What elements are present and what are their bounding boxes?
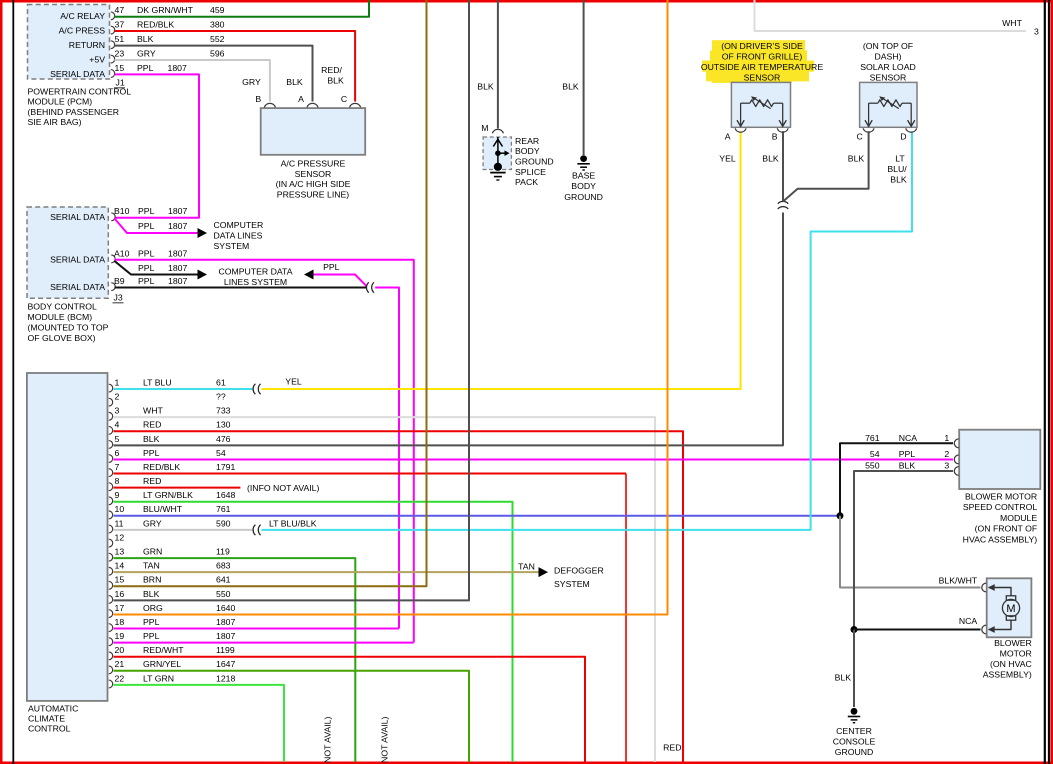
wire PCM-37 RED/BLK 380 to pressure sensor C [115, 31, 356, 102]
svg-text:596: 596 [210, 48, 225, 58]
svg-text:1807: 1807 [168, 221, 187, 231]
wire WHT to right connector 3 [755, 0, 1027, 31]
climate control pin 19 [109, 638, 113, 646]
svg-text:(ON FRONT OF: (ON FRONT OF [975, 524, 1038, 534]
svg-text:J3: J3 [114, 293, 123, 303]
wire BLK to rear body ground splice pack [497, 0, 499, 129]
svg-text:RED/BLK: RED/BLK [143, 462, 180, 472]
svg-text:1791: 1791 [216, 462, 235, 472]
blower motor box [987, 578, 1032, 637]
svg-text:130: 130 [216, 420, 231, 430]
splice pack internals [497, 137, 499, 167]
inline connector on B9 wire [366, 282, 368, 292]
svg-text:MOTOR: MOTOR [1000, 649, 1032, 659]
svg-text:OF FRONT GRILLE): OF FRONT GRILLE) [722, 52, 803, 62]
svg-text:(MOUNTED TO TOP: (MOUNTED TO TOP [28, 323, 109, 333]
svg-text:OUTSIDE AIR TEMPERATURE: OUTSIDE AIR TEMPERATURE [701, 62, 823, 72]
svg-text:51: 51 [115, 34, 125, 44]
svg-text:1807: 1807 [168, 276, 187, 286]
climate control pin 2 [109, 398, 113, 406]
blower module pin 3 [954, 467, 958, 476]
wire PCM-15 PPL 1807 to BCM B10 [115, 74, 200, 217]
wire BCM B9 PPL 1807 [115, 287, 367, 289]
solar load sensor box [860, 82, 917, 127]
svg-text:PACK: PACK [515, 177, 538, 187]
svg-text:733: 733 [216, 406, 231, 416]
base body ground symbol [580, 155, 587, 162]
wire row18 PPL 1807 stub [114, 628, 400, 630]
svg-text:6: 6 [115, 448, 120, 458]
svg-text:1807: 1807 [168, 263, 187, 273]
svg-text:GROUND: GROUND [515, 157, 554, 167]
svg-text:BLK: BLK [143, 589, 160, 599]
wire row9 LT GRN/BLK 1648 to bottom [114, 502, 513, 762]
svg-text:SENSOR: SENSOR [744, 73, 781, 83]
body control module BCM box [27, 207, 108, 298]
page margin black double line right [1044, 0, 1046, 764]
arrow to defogger system [539, 567, 549, 577]
climate control pin 17 [109, 610, 113, 618]
svg-text:1: 1 [944, 433, 949, 443]
wire solar sensor C BLK joining B wire [783, 131, 869, 201]
svg-text:BLK: BLK [899, 461, 916, 471]
svg-text:61: 61 [216, 377, 226, 387]
svg-text:TAN: TAN [518, 561, 535, 571]
svg-text:GROUND: GROUND [835, 747, 874, 757]
climate control pin 4 [109, 426, 113, 434]
svg-text:SIE AIR BAG): SIE AIR BAG) [28, 117, 82, 127]
svg-text:PPL: PPL [143, 617, 160, 627]
svg-text:15: 15 [115, 63, 125, 73]
wire BCM A10 branch black to computer data lines arrow 2 [115, 261, 198, 275]
svg-text:SOLAR LOAD: SOLAR LOAD [860, 62, 916, 72]
automatic climate control box [27, 373, 108, 701]
svg-text:PPL: PPL [138, 276, 155, 286]
svg-text:BLOWER: BLOWER [994, 638, 1032, 648]
svg-text:DATA LINES: DATA LINES [214, 231, 263, 241]
OAT sensor pin A [735, 128, 746, 132]
svg-text:761: 761 [865, 433, 880, 443]
wire row15 BRN 641 to top edge [114, 0, 427, 586]
powertrain control module PCM box [28, 5, 110, 80]
svg-text:CLIMATE: CLIMATE [28, 714, 65, 724]
svg-text:??: ?? [216, 391, 226, 401]
svg-text:ORG: ORG [143, 603, 163, 613]
svg-text:(BEHIND PASSENGER: (BEHIND PASSENGER [28, 107, 120, 117]
wire blower module pin3 BLK down [854, 471, 953, 630]
wire row1 LT BLU 61 [114, 388, 254, 390]
wire row6 PPL 54 to blower module pin2 [114, 458, 954, 460]
wire BCM B10 branch PPL to computer data lines arrow [115, 219, 198, 234]
svg-text:BLK: BLK [143, 434, 160, 444]
svg-text:16: 16 [115, 589, 125, 599]
climate control pin 7 [109, 469, 113, 477]
svg-text:3: 3 [115, 406, 120, 416]
svg-text:(INFO NOT AVAIL): (INFO NOT AVAIL) [323, 716, 333, 764]
OAT sensor thermistor symbol [740, 103, 742, 126]
svg-text:B: B [772, 131, 778, 141]
svg-text:1199: 1199 [216, 645, 235, 655]
svg-text:641: 641 [216, 575, 231, 585]
svg-text:LT GRN: LT GRN [143, 673, 174, 683]
svg-text:1640: 1640 [216, 603, 235, 613]
svg-text:PRESSURE LINE): PRESSURE LINE) [277, 190, 350, 200]
svg-text:DK GRN/WHT: DK GRN/WHT [137, 5, 194, 15]
inline connector on sensor B wire [778, 201, 788, 203]
junction dot NCA/BLK [851, 626, 858, 633]
svg-text:WHT: WHT [143, 406, 163, 416]
svg-text:(IN A/C HIGH SIDE: (IN A/C HIGH SIDE [276, 179, 351, 189]
svg-text:47: 47 [115, 5, 125, 15]
svg-text:PPL: PPL [323, 262, 340, 272]
svg-text:BLK: BLK [286, 77, 303, 87]
wire PCM-51 BLK 552 to pressure sensor A [115, 46, 313, 102]
svg-text:21: 21 [115, 659, 125, 669]
svg-text:CONTROL: CONTROL [28, 724, 71, 734]
svg-text:DEFOGGER: DEFOGGER [554, 566, 604, 576]
svg-text:1218: 1218 [216, 673, 235, 683]
svg-text:A: A [725, 131, 731, 141]
svg-text:23: 23 [115, 48, 125, 58]
svg-text:7: 7 [115, 462, 120, 472]
climate control pin 12 [109, 539, 113, 547]
climate control pin 21 [109, 666, 113, 674]
wire row5 BLK 476 to outside air temp sensor B [114, 213, 784, 446]
svg-text:1807: 1807 [168, 63, 187, 73]
svg-text:9: 9 [115, 490, 120, 500]
svg-text:BLK: BLK [762, 153, 779, 163]
wire row16 BLK 550 to top edge [114, 0, 470, 600]
svg-text:BLK: BLK [327, 75, 344, 85]
wire row21 GRN/YEL 1647 to bottom [114, 671, 470, 762]
svg-text:NCA: NCA [959, 616, 978, 626]
svg-text:1807: 1807 [216, 631, 235, 641]
svg-text:RED: RED [143, 420, 161, 430]
center console ground symbol [851, 708, 858, 715]
left arrow from PPL branch [304, 270, 314, 280]
svg-text:+5V: +5V [89, 55, 105, 65]
arrow to computer data lines system 2 [198, 270, 208, 280]
svg-text:B10: B10 [114, 206, 130, 216]
rear body ground splice pack box [483, 137, 511, 170]
page margin black line left [12, 0, 14, 764]
svg-text:15: 15 [115, 575, 125, 585]
svg-text:MODULE: MODULE [1000, 513, 1037, 523]
svg-text:MODULE (PCM): MODULE (PCM) [28, 97, 93, 107]
svg-text:PPL: PPL [138, 221, 155, 231]
svg-text:A10: A10 [114, 249, 130, 259]
pressure sensor pin C [350, 103, 361, 107]
svg-text:BODY: BODY [571, 181, 596, 191]
svg-text:13: 13 [115, 546, 125, 556]
climate control pin 5 [109, 441, 113, 449]
wire blower module pin1 NCA to junction [840, 443, 953, 516]
wire row17 ORG 1640 to top edge [114, 0, 668, 614]
wire row13 GRN 119 to bottom [114, 558, 356, 762]
svg-text:LT GRN/BLK: LT GRN/BLK [143, 490, 193, 500]
wire row8 RED info not avail [114, 487, 241, 489]
svg-text:(ON DRIVER’S SIDE: (ON DRIVER’S SIDE [721, 41, 803, 51]
svg-text:GRY: GRY [143, 518, 162, 528]
solar sensor pin D [906, 128, 917, 132]
svg-text:SENSOR: SENSOR [295, 169, 332, 179]
svg-text:11: 11 [115, 518, 124, 528]
svg-text:3: 3 [944, 461, 949, 471]
svg-text:NCA: NCA [899, 433, 918, 443]
wire PPL from arrow to B9 splice [314, 275, 367, 287]
climate control pin 8 [109, 483, 113, 491]
svg-text:380: 380 [210, 19, 225, 29]
svg-text:1807: 1807 [168, 249, 187, 259]
svg-text:OF GLOVE BOX): OF GLOVE BOX) [28, 333, 96, 343]
wire PCM-47 DK GRN/WHT 459 to top edge [115, 0, 370, 17]
svg-text:A/C PRESSURE: A/C PRESSURE [281, 159, 346, 169]
svg-text:MODULE (BCM): MODULE (BCM) [28, 312, 93, 322]
svg-text:RED/BLK: RED/BLK [137, 19, 174, 29]
svg-text:119: 119 [216, 546, 230, 556]
climate control pin 20 [109, 652, 113, 660]
svg-text:8: 8 [115, 476, 120, 486]
svg-text:476: 476 [216, 434, 231, 444]
blower module pin 1 [954, 439, 958, 448]
svg-text:A/C PRESS: A/C PRESS [59, 26, 106, 36]
svg-text:1647: 1647 [216, 659, 235, 669]
svg-text:SYSTEM: SYSTEM [554, 579, 590, 589]
svg-text:B: B [255, 94, 261, 104]
svg-text:YEL: YEL [719, 153, 736, 163]
svg-text:PPL: PPL [143, 448, 160, 458]
svg-text:2: 2 [944, 449, 949, 459]
svg-text:SERIAL DATA: SERIAL DATA [50, 69, 105, 79]
svg-text:54: 54 [216, 448, 226, 458]
svg-text:BLOWER MOTOR: BLOWER MOTOR [965, 491, 1037, 501]
climate control pin 22 [109, 680, 113, 688]
svg-text:4: 4 [115, 420, 120, 430]
svg-text:550: 550 [865, 461, 880, 471]
svg-text:LINES SYSTEM: LINES SYSTEM [224, 277, 287, 287]
svg-text:BLK: BLK [562, 82, 579, 92]
svg-text:3: 3 [1034, 27, 1039, 37]
solar sensor thermistor symbol [868, 103, 870, 126]
wire LT BLU/BLK to solar sensor D [262, 131, 913, 530]
svg-text:PPL: PPL [138, 249, 155, 259]
wire PCM-23 GRY 596 to pressure sensor B [115, 60, 270, 102]
svg-text:BLU/WHT: BLU/WHT [143, 504, 183, 514]
wire junction down to blower motor BLK/WHT pin [840, 516, 981, 588]
blower motor pin BLK/WHT [982, 583, 986, 592]
svg-text:BLK: BLK [848, 153, 865, 163]
svg-text:DASH): DASH) [874, 52, 901, 62]
wire row11 GRY 590 [114, 529, 254, 531]
svg-text:1: 1 [115, 377, 120, 387]
svg-text:(ON HVAC: (ON HVAC [990, 659, 1032, 669]
climate control pin 1 [109, 384, 113, 392]
svg-text:HVAC ASSEMBLY): HVAC ASSEMBLY) [963, 535, 1038, 545]
svg-text:RED/: RED/ [321, 65, 342, 75]
svg-text:BLU/: BLU/ [887, 164, 907, 174]
svg-text:BODY CONTROL: BODY CONTROL [28, 302, 98, 312]
svg-text:590: 590 [216, 518, 231, 528]
svg-text:BLK: BLK [137, 34, 154, 44]
svg-text:SERIAL DATA: SERIAL DATA [50, 212, 105, 222]
svg-text:BRN: BRN [143, 575, 161, 585]
svg-text:(ON TOP OF: (ON TOP OF [863, 41, 913, 51]
svg-text:A/C RELAY: A/C RELAY [60, 11, 105, 21]
pressure sensor pin A [307, 103, 318, 107]
climate control pin 3 [109, 412, 113, 420]
climate control pin 10 [109, 511, 113, 519]
svg-text:RED: RED [143, 476, 161, 486]
svg-text:761: 761 [216, 504, 231, 514]
wire row3 WHT 733 to bottom [114, 417, 656, 762]
svg-text:SERIAL DATA: SERIAL DATA [50, 254, 105, 264]
svg-text:PPL: PPL [138, 206, 155, 216]
svg-text:BLK: BLK [477, 82, 494, 92]
climate control pin 14 [109, 567, 113, 575]
wire BLK down to center console ground [853, 630, 855, 708]
pressure sensor pin B [264, 103, 275, 107]
climate control pin 15 [109, 581, 113, 589]
svg-text:YEL: YEL [285, 377, 302, 387]
svg-text:18: 18 [115, 617, 125, 627]
svg-text:5: 5 [115, 434, 120, 444]
svg-text:PPL: PPL [143, 631, 160, 641]
svg-text:RETURN: RETURN [69, 40, 105, 50]
svg-text:COMPUTER: COMPUTER [214, 220, 264, 230]
motor symbol [989, 588, 1012, 597]
svg-text:CONSOLE: CONSOLE [833, 737, 876, 747]
svg-text:AUTOMATIC: AUTOMATIC [28, 703, 78, 713]
svg-text:D: D [900, 131, 906, 141]
svg-text:1807: 1807 [216, 617, 235, 627]
svg-text:(INFO NOT AVAIL): (INFO NOT AVAIL) [380, 716, 390, 764]
wire BCM A10 PPL 1807 long horizontal to pin19 riser [115, 260, 414, 643]
solar sensor pin C [863, 128, 874, 132]
wire row19 PPL 1807 stub [114, 642, 414, 644]
inline connector row1 [253, 384, 255, 394]
blower module pin 2 [954, 455, 958, 464]
svg-text:(INFO NOT AVAIL): (INFO NOT AVAIL) [247, 483, 320, 493]
wire row4 RED 130 to bottom [114, 431, 684, 762]
svg-text:19: 19 [115, 631, 125, 641]
svg-text:LT BLU/BLK: LT BLU/BLK [269, 518, 317, 528]
splice pack ground symbol [490, 172, 505, 174]
junction dot BLU/WHT [837, 512, 844, 519]
svg-text:BLK: BLK [835, 673, 852, 683]
svg-text:ASSEMBLY): ASSEMBLY) [983, 669, 1032, 679]
svg-text:GRY: GRY [137, 48, 156, 58]
outside air temperature sensor highlight [712, 40, 805, 51]
svg-text:SPEED CONTROL: SPEED CONTROL [963, 502, 1038, 512]
svg-text:22: 22 [115, 673, 125, 683]
arrow to computer data lines system 1 [198, 228, 208, 238]
svg-text:C: C [341, 94, 347, 104]
blower motor speed control module box [959, 430, 1040, 489]
wire row7 RED/BLK 1791 to bottom [114, 473, 627, 475]
wire row22 LT GRN 1218 to bottom [114, 685, 285, 762]
svg-text:37: 37 [115, 19, 125, 29]
svg-text:WHT: WHT [1002, 18, 1022, 28]
OAT sensor pin B [777, 128, 788, 132]
svg-text:54: 54 [870, 449, 880, 459]
svg-text:PPL: PPL [899, 449, 916, 459]
svg-text:17: 17 [115, 603, 125, 613]
svg-text:BLK/WHT: BLK/WHT [939, 576, 978, 586]
svg-text:2: 2 [115, 391, 120, 401]
blower motor pin NCA [982, 625, 986, 634]
svg-text:12: 12 [115, 532, 125, 542]
svg-text:BASE: BASE [572, 171, 595, 181]
wire row10 BLU/WHT 761 to junction [114, 515, 841, 517]
svg-text:GROUND: GROUND [564, 192, 603, 202]
outside air temperature sensor box [731, 82, 790, 127]
inline connector row11 [253, 525, 255, 535]
svg-text:PPL: PPL [138, 263, 155, 273]
wire row20 RED/WHT 1199 to bottom [114, 657, 586, 762]
climate control pin 11 [109, 525, 113, 533]
climate control pin 13 [109, 553, 113, 561]
svg-text:LT BLU: LT BLU [143, 377, 172, 387]
svg-text:SERIAL DATA: SERIAL DATA [50, 282, 105, 292]
svg-text:GRY: GRY [242, 77, 261, 87]
svg-text:GRN/YEL: GRN/YEL [143, 659, 181, 669]
svg-text:REAR: REAR [515, 136, 539, 146]
svg-text:CENTER: CENTER [836, 726, 872, 736]
svg-text:1648: 1648 [216, 490, 235, 500]
climate control pin 16 [109, 596, 113, 604]
svg-text:TAN: TAN [143, 561, 160, 571]
svg-text:C: C [857, 131, 863, 141]
climate control pin 18 [109, 624, 113, 632]
svg-text:PPL: PPL [137, 63, 154, 73]
svg-text:459: 459 [210, 5, 225, 15]
svg-text:BLK: BLK [890, 174, 907, 184]
svg-text:20: 20 [115, 645, 125, 655]
svg-text:LT: LT [895, 153, 905, 163]
svg-text:550: 550 [216, 589, 231, 599]
svg-text:B9: B9 [114, 276, 125, 286]
svg-text:10: 10 [115, 504, 125, 514]
svg-text:SYSTEM: SYSTEM [214, 241, 250, 251]
svg-text:1807: 1807 [168, 206, 187, 216]
svg-text:RED: RED [663, 743, 681, 753]
svg-text:14: 14 [115, 561, 125, 571]
A/C pressure sensor box [261, 108, 366, 155]
svg-text:A: A [298, 94, 304, 104]
wire NCA junction to blower motor pin [854, 629, 981, 631]
wire BLK to base body ground [583, 0, 585, 155]
climate control pin 6 [109, 455, 113, 463]
wire row14 TAN 683 to defogger system [114, 571, 539, 573]
svg-text:BODY: BODY [515, 146, 540, 156]
svg-text:RED/WHT: RED/WHT [143, 645, 184, 655]
svg-text:SPLICE: SPLICE [515, 167, 546, 177]
svg-text:POWERTRAIN CONTROL: POWERTRAIN CONTROL [28, 86, 132, 96]
svg-text:SENSOR: SENSOR [870, 73, 907, 83]
wire PPL after connector to pin18 riser [375, 288, 399, 629]
svg-text:GRN: GRN [143, 546, 162, 556]
svg-text:M: M [1006, 603, 1015, 615]
svg-text:683: 683 [216, 561, 231, 571]
svg-text:552: 552 [210, 34, 225, 44]
climate control pin 9 [109, 497, 113, 505]
svg-text:COMPUTER DATA: COMPUTER DATA [218, 266, 292, 276]
wire YEL to outside air temp sensor A [262, 131, 741, 389]
svg-text:M: M [481, 123, 488, 133]
